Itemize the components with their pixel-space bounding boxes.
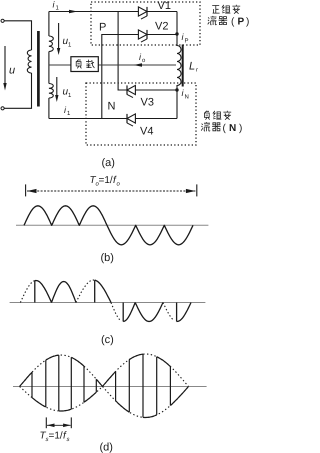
wire: node down right side <box>176 12 178 47</box>
To period annotation arrow <box>26 184 197 196</box>
wire: reactor bottom to V4 wire <box>176 85 178 119</box>
svg-text:P: P <box>238 17 245 28</box>
svg-text:(a): (a) <box>102 157 115 169</box>
svg-text:1: 1 <box>67 110 71 117</box>
svg-text:V4: V4 <box>140 126 153 138</box>
wire: primary to bottom terminal <box>4 73 31 108</box>
reactor core bar <box>182 45 184 87</box>
svg-text:(d): (d) <box>100 442 113 453</box>
P-group dashed box <box>91 2 200 45</box>
svg-text:N: N <box>229 123 236 134</box>
reactor winding L <box>177 46 181 86</box>
arrow u1 upper <box>58 23 60 50</box>
axis (b) <box>16 224 208 226</box>
svg-text:V2: V2 <box>155 21 168 33</box>
arrow u source <box>4 46 6 85</box>
wire: V3 to node <box>135 89 177 91</box>
svg-text:L: L <box>189 61 195 73</box>
thyristor V4 <box>127 114 135 123</box>
svg-text:(c): (c) <box>101 334 114 346</box>
label 负组变流器(N) <box>204 111 209 120</box>
svg-text:s: s <box>67 437 70 443</box>
wire: V2 to node <box>146 34 177 36</box>
svg-text:1: 1 <box>56 5 60 12</box>
svg-text:P: P <box>99 22 106 34</box>
wire: secondary top bus <box>49 11 177 13</box>
wire: top terminal to primary <box>4 21 31 50</box>
input terminal bottom <box>1 107 4 110</box>
transformer primary winding <box>27 50 31 73</box>
svg-text:(: ( <box>231 17 235 28</box>
Ts period marker <box>46 417 71 428</box>
svg-text:V3: V3 <box>141 97 154 109</box>
waveform (b) mean output voltage <box>24 206 193 245</box>
svg-text:=1/: =1/ <box>49 431 63 442</box>
svg-text:=1/: =1/ <box>99 175 113 186</box>
svg-text:1: 1 <box>68 92 72 99</box>
svg-text:1: 1 <box>68 42 72 49</box>
label 正组变流器(P) <box>212 6 219 14</box>
svg-text:): ) <box>239 123 242 134</box>
arrow io <box>134 63 143 66</box>
waveform (d) chopped output solid <box>20 354 189 417</box>
svg-text:o: o <box>142 58 146 64</box>
wire: V2 anode branch <box>102 35 139 119</box>
node: P output junction <box>175 32 178 35</box>
svg-text:): ) <box>246 17 249 28</box>
thyristor V1 <box>138 7 147 16</box>
arrow u1 lower <box>56 77 58 97</box>
svg-text:V1: V1 <box>158 0 171 12</box>
axis (d) <box>13 386 207 388</box>
transformer secondary winding lower <box>48 52 50 84</box>
wire: V3 cathode branch <box>118 12 127 91</box>
svg-text:N: N <box>185 94 189 101</box>
svg-text:(: ( <box>223 123 227 134</box>
N-group dashed box <box>86 83 196 145</box>
svg-text:u: u <box>9 65 15 77</box>
transformer core <box>37 31 40 107</box>
wire: load to reactor centre tap <box>49 64 176 66</box>
svg-text:(b): (b) <box>101 252 114 264</box>
svg-text:r: r <box>196 68 198 74</box>
thyristor V2 <box>138 30 147 39</box>
transformer secondary winding upper <box>48 12 50 37</box>
axis (c) <box>10 302 206 304</box>
thyristor V3 <box>127 85 135 94</box>
waveform (c) dotted segments <box>20 280 174 321</box>
load box 负载 <box>71 57 98 72</box>
arrow i1 top <box>69 10 78 13</box>
svg-text:P: P <box>185 38 189 45</box>
svg-text:N: N <box>108 101 116 113</box>
waveform (d) envelope dotted <box>20 354 189 418</box>
svg-text:o: o <box>117 182 121 188</box>
node: N output junction <box>175 88 178 91</box>
wire: secondary bottom bus <box>49 118 177 120</box>
input terminal top <box>1 19 4 22</box>
waveform (c) conducting segments <box>35 280 191 321</box>
